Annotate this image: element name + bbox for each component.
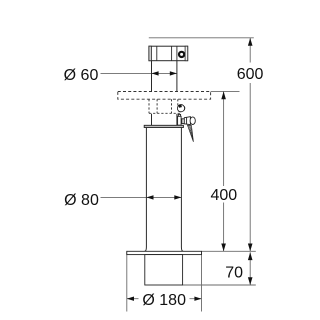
svg-text:70: 70 (225, 264, 243, 281)
svg-text:Ø 80: Ø 80 (64, 192, 99, 209)
svg-text:600: 600 (237, 66, 264, 83)
svg-text:400: 400 (210, 187, 237, 204)
svg-text:Ø 180: Ø 180 (142, 292, 186, 309)
svg-text:Ø 60: Ø 60 (64, 67, 99, 84)
